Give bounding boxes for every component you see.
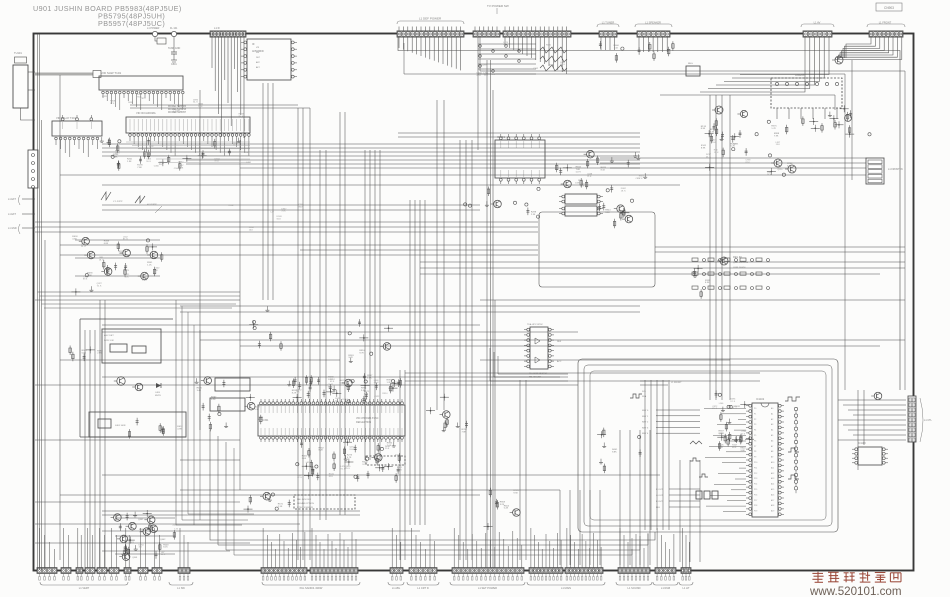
svg-text:V 1.2VPP: V 1.2VPP — [113, 201, 123, 203]
svg-text:A19: A19 — [771, 510, 774, 513]
svg-text:C922: C922 — [374, 396, 380, 398]
svg-text:L1 CTL: L1 CTL — [924, 419, 933, 422]
svg-text:8. K: 8. K — [742, 434, 746, 436]
svg-text:13. K: 13. K — [732, 408, 737, 410]
routing sweep bottom-left — [210, 430, 655, 555]
label sprinkle buffer — [81, 236, 160, 287]
svg-text:R914: R914 — [382, 393, 388, 395]
svg-text:7.8K: 7.8K — [462, 432, 467, 434]
svg-text:48.K: 48.K — [732, 447, 737, 449]
diode row under audio IC — [786, 112, 844, 135]
audio output transistor cluster — [111, 510, 176, 561]
svg-text:74.K: 74.K — [281, 211, 286, 213]
svg-text:L1 SW: L1 SW — [177, 586, 185, 590]
svg-text:FL 101: FL 101 — [170, 27, 178, 30]
svg-text:8.2K: 8.2K — [319, 450, 324, 452]
transistor Q1104 — [871, 392, 882, 400]
svg-text:18. K: 18. K — [621, 190, 626, 192]
AGC sub box — [102, 329, 161, 363]
svg-text:P9: P9 — [754, 457, 756, 459]
svg-text:1.7K: 1.7K — [771, 128, 776, 130]
bus labels above micro — [640, 381, 682, 398]
svg-text:A9: A9 — [771, 456, 773, 459]
svg-text:3.8K: 3.8K — [740, 450, 745, 452]
parts under tuner strip — [599, 41, 674, 63]
svg-text:A10: A10 — [771, 461, 774, 464]
left edge labels — [8, 195, 35, 234]
svg-text:17. K: 17. K — [714, 152, 719, 154]
capacitor C705 — [840, 105, 871, 137]
svg-text:L1 RGB: L1 RGB — [661, 586, 670, 590]
extra hline pack right — [600, 158, 866, 168]
svg-text:BLK: BLK — [656, 507, 661, 509]
svg-text:3.3K: 3.3K — [605, 212, 610, 214]
svg-text:A12: A12 — [771, 472, 774, 475]
diode row center-right — [705, 123, 759, 147]
svg-text:KEY 0: KEY 0 — [642, 410, 649, 412]
IC comb filter IC302 — [524, 323, 562, 379]
svg-text:8.8K: 8.8K — [612, 451, 617, 453]
component forest below IC301 — [296, 439, 405, 483]
label sprinkle micro area — [712, 399, 747, 449]
block T401 — [215, 378, 250, 391]
svg-text:9.5K: 9.5K — [513, 492, 518, 494]
svg-text:L1 FRONT: L1 FRONT — [879, 21, 892, 25]
capacitor cluster mid-left — [100, 137, 133, 171]
svg-text:1.1K: 1.1K — [147, 265, 152, 267]
IC SAW filter T101 — [99, 71, 183, 90]
svg-text:25. K: 25. K — [706, 157, 711, 159]
svg-text:P14: P14 — [754, 484, 757, 486]
wires to L1 CONTROL — [838, 400, 906, 440]
wire bundle from DEF POWER — [399, 37, 461, 70]
svg-text:DEFLECTION: DEFLECTION — [356, 421, 371, 424]
svg-text:KEY 1: KEY 1 — [642, 416, 649, 418]
cluster below IC601 — [464, 187, 541, 219]
svg-text:8.3K: 8.3K — [705, 282, 710, 284]
connector L1 AV — [801, 21, 834, 38]
svg-text:47. K: 47. K — [297, 477, 302, 479]
label sprinkle mid band — [229, 204, 304, 231]
svg-text:SECAM OPTION: SECAM OPTION — [297, 502, 314, 505]
parts near dashed box — [244, 492, 291, 512]
pin row under T201 — [55, 116, 99, 157]
caps near Q605 — [693, 265, 711, 299]
svg-text:87. K: 87. K — [123, 239, 128, 241]
svg-text:L1 FRONT IN: L1 FRONT IN — [888, 168, 903, 171]
pins under audio IC — [777, 108, 837, 119]
svg-text:A18: A18 — [771, 504, 774, 507]
frame around sound block — [539, 212, 655, 287]
svg-text:MUTE: MUTE — [155, 395, 162, 397]
svg-text:A7: A7 — [771, 445, 773, 448]
routing corners left-mid — [38, 292, 241, 308]
svg-text:L1 IF: L1 IF — [214, 26, 220, 30]
svg-text:Q605 2SC1815: Q605 2SC1815 — [733, 262, 749, 264]
svg-text:L1 HT: L1 HT — [682, 586, 689, 590]
svg-text:KEY 2: KEY 2 — [642, 422, 649, 424]
svg-text:REF: REF — [557, 341, 562, 343]
svg-text:2.6K: 2.6K — [302, 458, 307, 460]
IC reset IC1103 — [852, 442, 888, 465]
svg-text:Q602: Q602 — [160, 539, 166, 541]
svg-text:18. K: 18. K — [99, 259, 104, 261]
svg-text:51.K: 51.K — [580, 186, 585, 188]
svg-text:64. K: 64. K — [560, 64, 565, 66]
svg-text:94. K: 94. K — [328, 386, 333, 388]
svg-text:65.K: 65.K — [277, 219, 282, 221]
IC delay T201 — [52, 115, 102, 136]
cluster mid-left small — [69, 346, 103, 362]
pin row under T101 — [102, 91, 184, 110]
mute block box — [89, 412, 186, 439]
svg-text:PAL: B/G DK I: PAL: B/G DK I — [297, 498, 311, 501]
waveform glyphs — [630, 394, 800, 479]
svg-text:36.K: 36.K — [124, 277, 129, 279]
coil shield band — [35, 71, 101, 78]
svg-text:P5: P5 — [754, 435, 756, 437]
svg-text:2.3K: 2.3K — [278, 506, 283, 508]
svg-text:L1 POWER: L1 POWER — [147, 27, 160, 30]
svg-text:IC1102: IC1102 — [756, 397, 765, 401]
svg-text:ACC: ACC — [557, 360, 562, 363]
svg-text:1.1K: 1.1K — [614, 47, 619, 49]
svg-text:1.7K: 1.7K — [367, 378, 372, 380]
svg-text:D273: D273 — [576, 172, 582, 174]
svg-text:L1 SET POWER: L1 SET POWER — [478, 586, 497, 590]
svg-text:Q601: Q601 — [138, 519, 144, 521]
3pin boxes row — [696, 491, 718, 499]
cluster mid center — [348, 319, 393, 363]
svg-text:D390: D390 — [575, 183, 581, 185]
svg-text:TU101: TU101 — [14, 51, 22, 55]
svg-text:60. K: 60. K — [178, 167, 183, 169]
svg-text:Q883: Q883 — [733, 143, 739, 145]
svg-text:P13: P13 — [754, 478, 757, 480]
vertical x495 — [494, 300, 496, 568]
svg-text:10. K: 10. K — [345, 468, 350, 470]
options dashed box — [294, 495, 355, 509]
svg-text:4.9K: 4.9K — [177, 429, 182, 431]
wire bundle from L1 AV — [700, 37, 829, 92]
svg-text:77.K: 77.K — [484, 75, 489, 77]
svg-text:C362: C362 — [533, 68, 539, 70]
transistor Q605 with labels — [717, 256, 749, 269]
svg-text:29.K: 29.K — [385, 448, 390, 450]
svg-text:C409: C409 — [155, 392, 161, 394]
svg-text:A14: A14 — [771, 483, 774, 486]
svg-text:P2: P2 — [754, 419, 756, 421]
connector L1 CONTROL — [908, 396, 933, 442]
svg-text:L1 VERT: L1 VERT — [79, 586, 90, 590]
svg-text:Q808: Q808 — [132, 557, 138, 559]
svg-text:R580: R580 — [546, 44, 552, 46]
watermark url text — [809, 585, 902, 598]
connector strip P802 — [473, 27, 500, 38]
svg-text:R415 3.3K: R415 3.3K — [104, 340, 114, 342]
micro left pin wires — [704, 408, 746, 511]
svg-text:R773: R773 — [124, 270, 130, 272]
svg-text:89. K: 89. K — [239, 116, 244, 118]
label sprinkle under T101 — [115, 142, 252, 170]
watermark CJK glyph strokes — [812, 572, 901, 583]
svg-text:C900: C900 — [174, 168, 180, 170]
IC sound select — [495, 134, 545, 184]
connector P101 IF strip — [210, 26, 246, 41]
svg-text:8.1K: 8.1K — [163, 547, 168, 549]
svg-text:97. K: 97. K — [730, 401, 735, 403]
svg-text:72. K: 72. K — [97, 285, 102, 287]
svg-text:3.3K: 3.3K — [364, 393, 369, 395]
IC central chroma deflection IC301 — [258, 399, 405, 442]
svg-text:1.9K: 1.9K — [127, 161, 132, 163]
label sprinkle above IC301 — [296, 379, 399, 402]
connector L1 SPEAKER — [635, 21, 672, 38]
svg-text:23. K: 23. K — [81, 246, 86, 248]
svg-text:R332: R332 — [229, 205, 235, 207]
svg-text:97.K: 97.K — [767, 174, 772, 176]
svg-text:2.3K: 2.3K — [710, 131, 715, 133]
routing loops below comb — [490, 348, 568, 381]
svg-text:13.K: 13.K — [776, 144, 781, 146]
key label rows — [642, 410, 700, 435]
bottom bracket labels — [40, 582, 693, 590]
svg-text:A4: A4 — [771, 429, 773, 432]
svg-text:A1: A1 — [771, 412, 773, 415]
label CN903 box — [876, 3, 902, 11]
label sprinkle bottom cluster — [119, 515, 179, 559]
svg-text:R438: R438 — [128, 102, 134, 104]
label sprinkle sound — [575, 172, 644, 193]
routing left-center loops — [176, 300, 254, 525]
svg-text:A3: A3 — [771, 423, 773, 426]
svg-text:L1 AV: L1 AV — [814, 21, 821, 25]
connector L1 DEF POWER strip — [397, 17, 464, 38]
tuner TU101 — [13, 51, 28, 108]
svg-text:KEY 3: KEY 3 — [642, 427, 649, 429]
svg-text:93.K: 93.K — [349, 449, 354, 451]
svg-text:X401 503F: X401 503F — [115, 425, 126, 427]
connector L1 TUNER — [597, 21, 619, 38]
resistor cluster audio — [701, 118, 793, 176]
svg-text:P1: P1 — [754, 413, 756, 415]
fuse F801 — [147, 27, 160, 37]
IC video chroma main — [126, 117, 250, 133]
bus mesh under main IC — [126, 142, 250, 162]
svg-text:48. K: 48. K — [374, 382, 379, 384]
svg-text:84.K: 84.K — [161, 554, 166, 556]
pin row under main IC — [129, 119, 251, 156]
cap column right of micro — [794, 407, 797, 493]
frame verticals left-mid — [194, 325, 200, 525]
bottom edge connector strips — [37, 568, 691, 574]
wire bundle from L1 FRONT — [836, 37, 902, 59]
bottom pin labels — [39, 574, 690, 581]
svg-text:R563: R563 — [129, 542, 135, 544]
svg-text:A17: A17 — [771, 499, 774, 502]
svg-text:A5: A5 — [771, 434, 773, 437]
svg-text:81.K: 81.K — [711, 142, 716, 144]
svg-text:CN903: CN903 — [884, 6, 894, 10]
routing frame micro area — [578, 359, 838, 532]
svg-text:PAL SAND/4.43DW: PAL SAND/4.43DW — [300, 586, 323, 590]
svg-text:VID IF/CHROMA: VID IF/CHROMA — [136, 111, 156, 115]
svg-text:16.K: 16.K — [249, 229, 254, 231]
svg-text:A8: A8 — [771, 450, 773, 453]
svg-text:1.2K: 1.2K — [387, 382, 392, 384]
svg-text:A16: A16 — [771, 493, 774, 496]
cluster center upper — [249, 306, 282, 351]
transistor Q404 — [114, 377, 125, 385]
svg-text:VID DELAY T201: VID DELAY T201 — [56, 116, 76, 120]
svg-text:L1 TUNER: L1 TUNER — [602, 21, 615, 25]
svg-text:6.2K: 6.2K — [211, 399, 216, 401]
svg-text:2.8K: 2.8K — [97, 353, 102, 355]
svg-text:L1 MAIN: L1 MAIN — [561, 586, 571, 590]
labels above main IC — [136, 105, 187, 115]
svg-text:L1 CRT D: L1 CRT D — [417, 586, 429, 590]
svg-text:39.K: 39.K — [393, 384, 398, 386]
svg-text:P6: P6 — [754, 440, 756, 442]
svg-text:P3: P3 — [754, 424, 756, 426]
IC IF AN5138 — [241, 39, 297, 80]
connector L1 FRONT IN — [866, 158, 903, 184]
transistor Q802 — [785, 165, 796, 173]
label TV POWER SW — [487, 4, 509, 14]
svg-text:SDA: SDA — [642, 395, 647, 398]
cluster rails — [115, 518, 175, 554]
svg-text:5.3K: 5.3K — [255, 409, 260, 411]
svg-text:VID SAW T101: VID SAW T101 — [101, 71, 122, 75]
cluster right of IC301 — [426, 394, 468, 434]
svg-text:8.3K: 8.3K — [701, 128, 706, 130]
svg-text:A6: A6 — [771, 439, 773, 442]
central IC labels — [262, 417, 379, 424]
svg-text:5.4K: 5.4K — [504, 508, 509, 510]
svg-text:L1 FRONT: L1 FRONT — [671, 382, 682, 384]
cluster sound area lower — [598, 199, 634, 228]
svg-text:REG 9V: REG 9V — [733, 256, 742, 259]
svg-text:23. K: 23. K — [503, 44, 508, 46]
svg-text:L1 ABL: L1 ABL — [392, 586, 401, 590]
wire bundle from P803 — [505, 37, 567, 74]
svg-text:62.K: 62.K — [330, 381, 335, 383]
IC sound discriminator pair — [559, 194, 603, 216]
svg-text:Q520: Q520 — [777, 169, 783, 171]
svg-text:81.K: 81.K — [329, 476, 334, 478]
res network rows — [692, 258, 770, 290]
transistor Q405 — [132, 383, 143, 391]
diode D402 — [155, 383, 162, 397]
svg-text:P15: P15 — [754, 489, 757, 491]
component forest above IC301 — [287, 373, 401, 403]
svg-text:10.K: 10.K — [198, 106, 203, 108]
AGC block outline — [80, 319, 186, 437]
svg-text:TV POWER SW: TV POWER SW — [487, 4, 509, 8]
svg-text:86.K: 86.K — [299, 206, 304, 208]
horizontal bus wires — [35, 105, 905, 551]
svg-text:Q854: Q854 — [362, 399, 368, 401]
svg-text:5. K: 5. K — [639, 178, 643, 180]
svg-text:APC: APC — [256, 61, 261, 64]
transistor Q705 — [737, 110, 747, 117]
label sprinkle below IC301 — [297, 446, 403, 479]
svg-text:7.9K: 7.9K — [774, 135, 779, 137]
svg-text:C801: C801 — [171, 63, 177, 66]
svg-text:IF: IF — [252, 42, 255, 46]
cluster left of IC301 — [195, 377, 264, 432]
svg-text:D298: D298 — [481, 64, 487, 66]
svg-text:8.1K: 8.1K — [601, 169, 606, 171]
svg-text:9.7K: 9.7K — [359, 353, 364, 355]
connector strip P803 — [503, 27, 571, 38]
junction cluster under main IC — [137, 137, 240, 170]
svg-text:P19: P19 — [754, 511, 757, 513]
svg-text:97.K: 97.K — [110, 103, 115, 105]
svg-text:31.K: 31.K — [159, 164, 164, 166]
sawtooth symbols — [101, 192, 162, 213]
svg-text:2.3K: 2.3K — [531, 214, 536, 216]
block T402 — [210, 398, 245, 411]
connector left border — [28, 150, 38, 189]
svg-text:A0: A0 — [771, 407, 773, 410]
transistor Q704 — [712, 106, 723, 114]
wire bundle from tuner strip — [601, 37, 667, 52]
svg-text:TDA UPC1379C: TDA UPC1379C — [527, 323, 543, 326]
svg-text:62.K: 62.K — [477, 75, 482, 77]
svg-text:KEY 4: KEY 4 — [642, 433, 649, 435]
regulator box top-right — [686, 63, 700, 76]
transistor Q703 — [832, 56, 843, 64]
svg-text:72.K: 72.K — [173, 112, 178, 114]
resistor hatch rows — [540, 47, 567, 71]
svg-text:IC1103: IC1103 — [858, 442, 866, 445]
svg-text:7.8K: 7.8K — [137, 167, 142, 169]
buffer rails — [75, 240, 160, 276]
svg-text:3.7K: 3.7K — [362, 464, 367, 466]
svg-text:P4: P4 — [754, 430, 756, 432]
svg-text:A11: A11 — [771, 466, 774, 469]
wires tuner to board — [21, 72, 36, 120]
svg-text:AN5265: AN5265 — [795, 73, 805, 77]
svg-text:3.2K: 3.2K — [500, 504, 505, 506]
svg-text:L1 EXT: L1 EXT — [8, 213, 17, 216]
svg-text:30. K: 30. K — [397, 469, 402, 471]
cluster above micro — [715, 390, 754, 451]
svg-text:6.6K: 6.6K — [787, 165, 792, 167]
svg-text:C607: C607 — [397, 465, 403, 467]
routing frame top-right — [398, 37, 905, 390]
svg-text:P7: P7 — [754, 446, 756, 448]
svg-text:L1 DEF POWER: L1 DEF POWER — [419, 17, 442, 21]
svg-text:www.520101.com: www.520101.com — [809, 585, 902, 597]
fuse F802 — [170, 27, 178, 37]
cluster sound area — [556, 150, 648, 192]
svg-text:9.8K: 9.8K — [113, 157, 118, 159]
label sprinkle IF area — [477, 42, 566, 77]
svg-text:P8: P8 — [754, 451, 756, 453]
transistor cluster video buffer — [71, 236, 162, 295]
svg-text:L1 SOUND: L1 SOUND — [628, 586, 641, 590]
svg-text:6.8K: 6.8K — [104, 243, 109, 245]
svg-text:REG: REG — [688, 63, 693, 65]
svg-text:3.4K: 3.4K — [197, 390, 202, 392]
RGB label rows — [656, 489, 700, 509]
svg-text:P17: P17 — [754, 500, 757, 502]
svg-text:5.7K: 5.7K — [731, 146, 736, 148]
cluster labels — [138, 519, 166, 541]
transistor Q801 — [771, 159, 782, 167]
